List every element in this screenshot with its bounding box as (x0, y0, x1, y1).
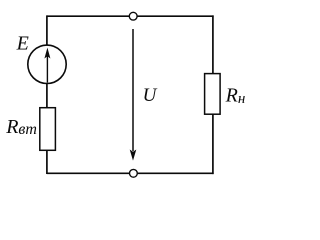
svg-text:U: U (143, 85, 158, 106)
resistor Rn (205, 74, 221, 115)
wire left lower (46, 150, 48, 174)
source E circle U1 (28, 45, 66, 83)
wire right lower (212, 114, 214, 175)
source E arrow (46, 56, 48, 83)
wire bottom right segment (138, 172, 214, 174)
svg-text:Rвт: Rвт (5, 116, 37, 138)
voltage U arrowhead (130, 150, 137, 161)
wire top right segment (138, 15, 214, 17)
svg-text:Rн: Rн (225, 84, 246, 107)
wire left upper (46, 15, 48, 46)
wire right upper (212, 15, 214, 74)
wire bottom left segment (47, 172, 129, 174)
terminal node top (129, 12, 137, 20)
terminal node bottom (130, 169, 138, 177)
wire top left segment (47, 15, 129, 17)
resistor Rvt (40, 108, 56, 151)
wire left middle (46, 83, 48, 109)
voltage U arrow line (132, 29, 134, 151)
svg-text:E: E (16, 33, 29, 55)
